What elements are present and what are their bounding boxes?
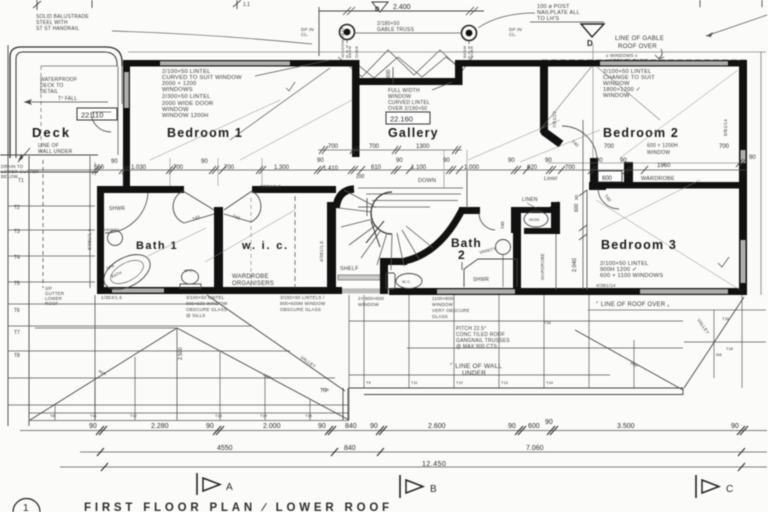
- svg-text:GABLE TRUSS: GABLE TRUSS: [377, 27, 415, 33]
- dashed gable edge line: [542, 59, 746, 61]
- svg-text:2.600: 2.600: [428, 423, 446, 430]
- wall bedroom1 top: [123, 60, 359, 67]
- svg-text:610: 610: [371, 165, 382, 171]
- bottom dimension row 1: [20, 430, 767, 432]
- wall bedroom1 left: [123, 60, 130, 193]
- left roof battens: [55, 352, 310, 420]
- left roof course lines lower: [8, 295, 349, 421]
- stair treads fan: [339, 190, 433, 270]
- svg-text:T13: T13: [501, 380, 509, 385]
- svg-text:T12: T12: [456, 380, 464, 385]
- svg-text:1.000: 1.000: [464, 165, 480, 171]
- svg-text:700: 700: [224, 165, 235, 171]
- double door right leaf: [251, 191, 261, 222]
- window bath2 shower bottom: [437, 289, 515, 294]
- svg-text:Gallery: Gallery: [388, 126, 439, 140]
- svg-text:3.500: 3.500: [617, 423, 635, 430]
- stair center cross: [358, 198, 376, 216]
- section marker B: [400, 475, 437, 498]
- svg-text:2× 900×600: 2× 900×600: [358, 296, 384, 301]
- svg-text:1100×800: 1100×800: [432, 296, 454, 301]
- linen basket: [524, 211, 548, 227]
- center roof batten labels: [366, 320, 554, 385]
- top-right corner arrow: [706, 15, 767, 36]
- svg-text:1.410: 1.410: [323, 166, 339, 172]
- left T labels: [14, 178, 24, 359]
- svg-text:90: 90: [318, 423, 326, 430]
- wall stairwell west: [327, 202, 336, 292]
- batten labels: [50, 387, 330, 418]
- svg-text:1.300: 1.300: [274, 165, 290, 171]
- gable zigzag: [338, 40, 473, 78]
- svg-text:TO LH'S: TO LH'S: [537, 16, 559, 22]
- interior dim values: [94, 155, 756, 172]
- bedroom2 diagonal leader: [596, 66, 660, 120]
- svg-text:600: 600: [528, 423, 540, 430]
- svg-text:2.500: 2.500: [178, 347, 184, 360]
- post P1: [340, 25, 355, 40]
- diagonal leader gallery-bedroom2: [468, 120, 560, 160]
- svg-text:5/8: 5/8: [716, 352, 722, 357]
- svg-text:740: 740: [500, 221, 505, 229]
- svg-text:T1: T1: [18, 178, 24, 184]
- svg-text:A: A: [226, 482, 233, 493]
- svg-text:OBSCURE GLASS: OBSCURE GLASS: [186, 307, 227, 312]
- svg-text:UNDER: UNDER: [462, 370, 486, 377]
- svg-text:W.C.: W.C.: [402, 279, 411, 284]
- hip right diagonal: [177, 328, 349, 420]
- svg-text:CL.: CL.: [509, 32, 517, 37]
- wall gallery window sill: [352, 78, 462, 85]
- wall bath1 top: [97, 186, 182, 193]
- svg-text:D: D: [587, 39, 593, 48]
- svg-text:Bath 1: Bath 1: [136, 240, 178, 252]
- svg-text:1.100: 1.100: [411, 165, 427, 171]
- svg-text:3/150×50 LINTELS /: 3/150×50 LINTELS /: [280, 295, 325, 300]
- svg-text:WINDOW: WINDOW: [603, 93, 630, 99]
- window bath1 bottom: [112, 288, 164, 292]
- svg-text:OVER 2/190×50: OVER 2/190×50: [388, 106, 427, 112]
- svg-text:90: 90: [596, 158, 603, 164]
- svg-text:T18: T18: [726, 346, 734, 351]
- wic dashed line: [294, 196, 296, 288]
- interior dim ticks: [92, 159, 746, 174]
- bath1 shower: [105, 193, 148, 233]
- svg-text:700: 700: [328, 144, 339, 150]
- bath2 shower: [464, 259, 517, 287]
- svg-text:90: 90: [317, 158, 324, 164]
- svg-text:4/3B1/1.6: 4/3B1/1.6: [319, 241, 324, 262]
- svg-text:90: 90: [545, 419, 553, 426]
- svg-text:4/3B1/14: 4/3B1/14: [596, 283, 616, 288]
- svg-text:900×600M WINDOW: 900×600M WINDOW: [280, 301, 326, 306]
- svg-text:550: 550: [94, 165, 105, 171]
- svg-text:VANITY: VANITY: [104, 227, 119, 232]
- svg-text:1960: 1960: [657, 163, 671, 169]
- svg-text:2.280: 2.280: [151, 423, 169, 430]
- svg-text:ROOF: ROOF: [45, 301, 59, 306]
- svg-text:WINDOWS: WINDOWS: [162, 87, 193, 93]
- hip left diagonal: [30, 328, 177, 420]
- svg-text:T5: T5: [14, 281, 20, 287]
- window bedroom1 top: [160, 61, 290, 65]
- window east upper: [741, 150, 746, 163]
- wall bottom south-east: [389, 288, 746, 295]
- svg-text:4550: 4550: [217, 445, 233, 452]
- stair inner rail: [371, 192, 392, 234]
- svg-text:600: 600: [602, 176, 613, 182]
- svg-text:90: 90: [396, 158, 403, 164]
- svg-text:90: 90: [508, 158, 515, 164]
- svg-text:700: 700: [173, 165, 184, 171]
- svg-text:LINE OF GABLE: LINE OF GABLE: [615, 35, 664, 42]
- bottom dimension row 3: [60, 466, 767, 468]
- svg-text:Bedroom 1: Bedroom 1: [167, 126, 243, 140]
- svg-text:@ MAX 900 CTS: @ MAX 900 CTS: [456, 344, 497, 350]
- svg-text:T3: T3: [14, 229, 20, 235]
- svg-text:1300: 1300: [416, 144, 430, 150]
- svg-text:2.000: 2.000: [263, 423, 281, 430]
- wall bedroom3 door jamb west: [589, 182, 606, 190]
- diagonal leader bedroom1: [150, 100, 280, 160]
- stair top treads: [358, 188, 463, 207]
- svg-text:WINDOW: WINDOW: [432, 302, 453, 307]
- wall bath1 west: [97, 186, 104, 293]
- bath1 spa bath: [98, 247, 156, 296]
- svg-text:WARDROBE: WARDROBE: [232, 274, 269, 280]
- svg-text:ORGANISERS: ORGANISERS: [232, 281, 274, 287]
- svg-text:DETAIL: DETAIL: [40, 89, 58, 95]
- bath2 vanity: [496, 240, 511, 255]
- east outside line: [760, 52, 762, 295]
- svg-text:3/100×50 LINTEL: 3/100×50 LINTEL: [186, 295, 225, 300]
- wall top middle-right: [460, 60, 746, 67]
- svg-text:BELOW: BELOW: [1, 174, 19, 179]
- wc room toilet: [386, 273, 395, 289]
- svg-text:C: C: [726, 484, 733, 495]
- section marker A: [197, 473, 233, 495]
- svg-text:T6: T6: [14, 308, 20, 314]
- svg-text:VERT OBSCURE: VERT OBSCURE: [432, 308, 470, 313]
- svg-text:ST ST HANDRAIL: ST ST HANDRAIL: [36, 26, 79, 32]
- svg-text:WARDROBE: WARDROBE: [540, 253, 545, 280]
- svg-text:700: 700: [369, 144, 380, 150]
- svg-text:90: 90: [508, 423, 516, 430]
- svg-text:90: 90: [89, 423, 97, 430]
- svg-text:WALL UNDER: WALL UNDER: [38, 149, 73, 155]
- svg-text:T7: T7: [14, 330, 20, 336]
- window bedroom2 top: [600, 61, 728, 65]
- bath1 leader diagonal: [148, 228, 206, 256]
- bedroom2 door arc: [562, 126, 597, 159]
- wall bath2 door jamb: [511, 207, 519, 233]
- gallery east boundary line: [466, 171, 468, 208]
- svg-text:w. i. c.: w. i. c.: [241, 240, 289, 252]
- center roof grid: [349, 295, 683, 420]
- svg-text:1/3E4/1.6: 1/3E4/1.6: [101, 295, 122, 300]
- wall gallery left pier: [352, 85, 360, 157]
- deck outer balustrade: [10, 47, 122, 158]
- svg-text:FIRST FLOOR PLAN ∕ LOWER RO: FIRST FLOOR PLAN ∕ LOWER ROOF: [84, 502, 393, 512]
- window bedroom1 left: [124, 72, 129, 108]
- section marker D right: [581, 24, 604, 37]
- wall linen corner splay: [549, 203, 559, 210]
- svg-text:B: B: [430, 484, 437, 495]
- svg-text:Bath: Bath: [451, 236, 482, 250]
- down-left arrow: [18, 148, 30, 162]
- svg-text:7.060: 7.060: [526, 445, 544, 452]
- long gable line: [128, 51, 766, 53]
- leader lines bedroom1: [230, 60, 330, 140]
- beam line between posts: [354, 32, 462, 34]
- deck inner balustrade: [16, 52, 117, 158]
- svg-text:T11: T11: [90, 413, 97, 418]
- window bedroom3 bottom: [640, 289, 728, 294]
- svg-text:900×600 WINDOW: 900×600 WINDOW: [186, 301, 228, 306]
- svg-text:Lintel: Lintel: [544, 176, 558, 182]
- wall linen east: [551, 202, 560, 234]
- svg-text:T9: T9: [366, 380, 371, 385]
- svg-text:90: 90: [749, 155, 756, 161]
- wall linen west: [513, 207, 521, 292]
- wall wic bottom: [214, 287, 342, 294]
- bath1 vanity: [108, 231, 123, 246]
- svg-text:620: 620: [527, 165, 538, 171]
- svg-text:SHWR: SHWR: [473, 277, 489, 283]
- svg-text:7/B1/22: 7/B1/22: [552, 111, 557, 128]
- wall wc top stub: [380, 258, 407, 265]
- section marker C: [696, 475, 733, 498]
- svg-text:600 × 1200H: 600 × 1200H: [647, 143, 678, 149]
- svg-text:T13: T13: [215, 413, 223, 418]
- drawing number circle: [13, 499, 40, 512]
- svg-text:DOWN: DOWN: [418, 178, 436, 184]
- svg-text:2.400: 2.400: [393, 4, 411, 11]
- svg-text:T15: T15: [305, 413, 313, 418]
- svg-text:600 × 1100 WINDOWS: 600 × 1100 WINDOWS: [600, 273, 663, 279]
- svg-text:T16: T16: [544, 320, 552, 325]
- svg-text:8/B1/14: 8/B1/14: [723, 119, 728, 136]
- wall gallery east splay: [543, 131, 561, 144]
- svg-text:90: 90: [731, 423, 739, 430]
- double door left leaf: [173, 191, 184, 223]
- bedroom3 vertical dims: [579, 120, 587, 290]
- svg-text:840: 840: [345, 423, 357, 430]
- svg-text:WINDOW 1200H: WINDOW 1200H: [162, 113, 209, 119]
- svg-text:T14: T14: [260, 413, 268, 418]
- wall bath2 top: [459, 207, 480, 214]
- bedroom3 west line: [586, 190, 588, 290]
- svg-text:90: 90: [370, 423, 378, 430]
- bath1 wc: [180, 284, 201, 289]
- svg-text:22.160: 22.160: [390, 115, 413, 124]
- svg-text:200: 200: [356, 174, 365, 180]
- valley diagonal left roof: [207, 295, 345, 391]
- svg-text:T4: T4: [14, 255, 20, 261]
- level box 22.160: [386, 112, 430, 124]
- svg-text:90: 90: [111, 159, 118, 165]
- bedroom3 diagonal leader: [596, 200, 740, 290]
- svg-text:90: 90: [201, 159, 208, 165]
- svg-text:T12: T12: [130, 413, 138, 418]
- bath2 door arc: [479, 213, 495, 230]
- extension verticals from dim chain: [95, 150, 467, 186]
- wall wic west: [214, 207, 223, 292]
- svg-text:WARDROBE: WARDROBE: [641, 176, 675, 182]
- wall stairwell curve: [336, 189, 354, 208]
- wall gallery recess left: [352, 60, 360, 85]
- svg-text:2: 2: [458, 248, 465, 262]
- gallery recess dim 600: [392, 67, 394, 84]
- wall linen bottom: [524, 228, 559, 234]
- svg-text:1/3E4/1.5: 1/3E4/1.5: [260, 184, 281, 189]
- svg-text:90: 90: [574, 194, 579, 200]
- wall east: [739, 60, 747, 295]
- svg-text:1.030: 1.030: [131, 165, 147, 171]
- svg-text:1.1: 1.1: [243, 2, 250, 8]
- svg-text:Deck: Deck: [32, 125, 71, 140]
- svg-text:Tº FALL: Tº FALL: [58, 96, 77, 102]
- svg-text:700: 700: [565, 165, 576, 171]
- svg-text:D: D: [375, 7, 380, 13]
- window hall bottom: [342, 288, 380, 293]
- dim box 600: [598, 171, 622, 182]
- wall wardrobe jamb: [590, 158, 598, 186]
- bottom dimension row 2: [80, 451, 767, 453]
- svg-text:T8: T8: [50, 413, 55, 418]
- wall bath2 curved: [405, 210, 462, 261]
- svg-text:SHWR: SHWR: [109, 206, 125, 212]
- svg-text:WINDOW SEAT: WINDOW SEAT: [340, 27, 345, 58]
- deck door arc: [91, 112, 111, 132]
- svg-text:T16: T16: [722, 316, 730, 321]
- svg-text:W.C.: W.C.: [184, 268, 193, 273]
- svg-text:GLASS: GLASS: [432, 314, 448, 319]
- svg-text:8/3B1/1.4: 8/3B1/1.4: [87, 229, 92, 250]
- svg-text:SHELF: SHELF: [340, 266, 359, 272]
- svg-text:ROOF OVER: ROOF OVER: [618, 43, 657, 50]
- post P2: [462, 26, 477, 41]
- deck dashed edge: [40, 66, 42, 152]
- gallery upper dim row: [318, 149, 462, 151]
- interior dimension chain line: [30, 169, 746, 171]
- stair break mark: [366, 221, 384, 247]
- svg-text:⌜ LINE OF WALL: ⌜ LINE OF WALL: [450, 362, 502, 370]
- svg-text:WINDOW: WINDOW: [647, 150, 670, 156]
- svg-text:T8: T8: [14, 353, 20, 359]
- svg-text:@ SILLS: @ SILLS: [186, 313, 205, 318]
- svg-text:600: 600: [574, 203, 580, 212]
- wall bedroom2 bottom: [606, 182, 746, 189]
- svg-text:700: 700: [719, 144, 730, 150]
- hip center-right: [575, 330, 683, 390]
- wall bath1 bottom: [97, 287, 222, 294]
- svg-text:WINDOW: WINDOW: [358, 302, 379, 307]
- svg-text:840: 840: [344, 445, 356, 452]
- svg-text:Bedroom 2: Bedroom 2: [603, 126, 679, 140]
- svg-text:600: 600: [386, 69, 392, 78]
- wall gallery east: [540, 66, 548, 133]
- valley right: [684, 297, 744, 388]
- step between roofs: [347, 388, 349, 420]
- svg-text:12.450: 12.450: [422, 461, 446, 468]
- svg-text:1: 1: [23, 503, 29, 512]
- top dimension 2.400: [319, 7, 484, 56]
- bedroom3 door arc: [598, 189, 619, 209]
- left roof edge lines: [0, 45, 98, 426]
- wall gallery recess right: [455, 60, 463, 85]
- marker D top-center: [372, 2, 388, 12]
- center roof eave double line: [349, 387, 683, 389]
- ridge horizontal: [35, 327, 177, 329]
- svg-text:⌜ LINE OF ROOF OVER ⌞: ⌜ LINE OF ROOF OVER ⌞: [596, 301, 670, 308]
- svg-text:90: 90: [206, 423, 214, 430]
- svg-text:2/300×50 LINTEL: 2/300×50 LINTEL: [162, 94, 211, 100]
- svg-text:700: 700: [604, 144, 615, 150]
- wall wardrobe divider: [624, 162, 633, 188]
- wall bedroom1 bottom right: [252, 186, 336, 193]
- wall wc west: [380, 262, 388, 294]
- svg-text:T11: T11: [411, 380, 418, 385]
- wic leader diagonal: [205, 210, 295, 262]
- window bedroom3 east: [741, 240, 746, 283]
- svg-text:CL.: CL.: [301, 32, 309, 37]
- svg-text:LINEN: LINEN: [522, 197, 538, 203]
- svg-text:TO: TO: [320, 388, 327, 394]
- svg-text:T14: T14: [546, 380, 554, 385]
- ridge vertical: [176, 328, 178, 420]
- right roof grid: [684, 295, 766, 388]
- wall linen top: [513, 207, 560, 213]
- svg-text:OBSCURE GLASS: OBSCURE GLASS: [280, 307, 321, 312]
- svg-text:T2: T2: [14, 205, 20, 211]
- level box 22.110: [77, 108, 117, 120]
- svg-text:90: 90: [545, 158, 552, 164]
- svg-text:IRON: IRON: [529, 218, 539, 222]
- svg-text:90: 90: [620, 158, 627, 164]
- top edge tick marks: [33, 0, 241, 10]
- wall bedroom1 bottom left jamb: [123, 186, 184, 193]
- svg-text:2.040: 2.040: [572, 258, 578, 272]
- left roof course lines: [8, 156, 95, 288]
- svg-text:Bedroom 3: Bedroom 3: [601, 238, 677, 252]
